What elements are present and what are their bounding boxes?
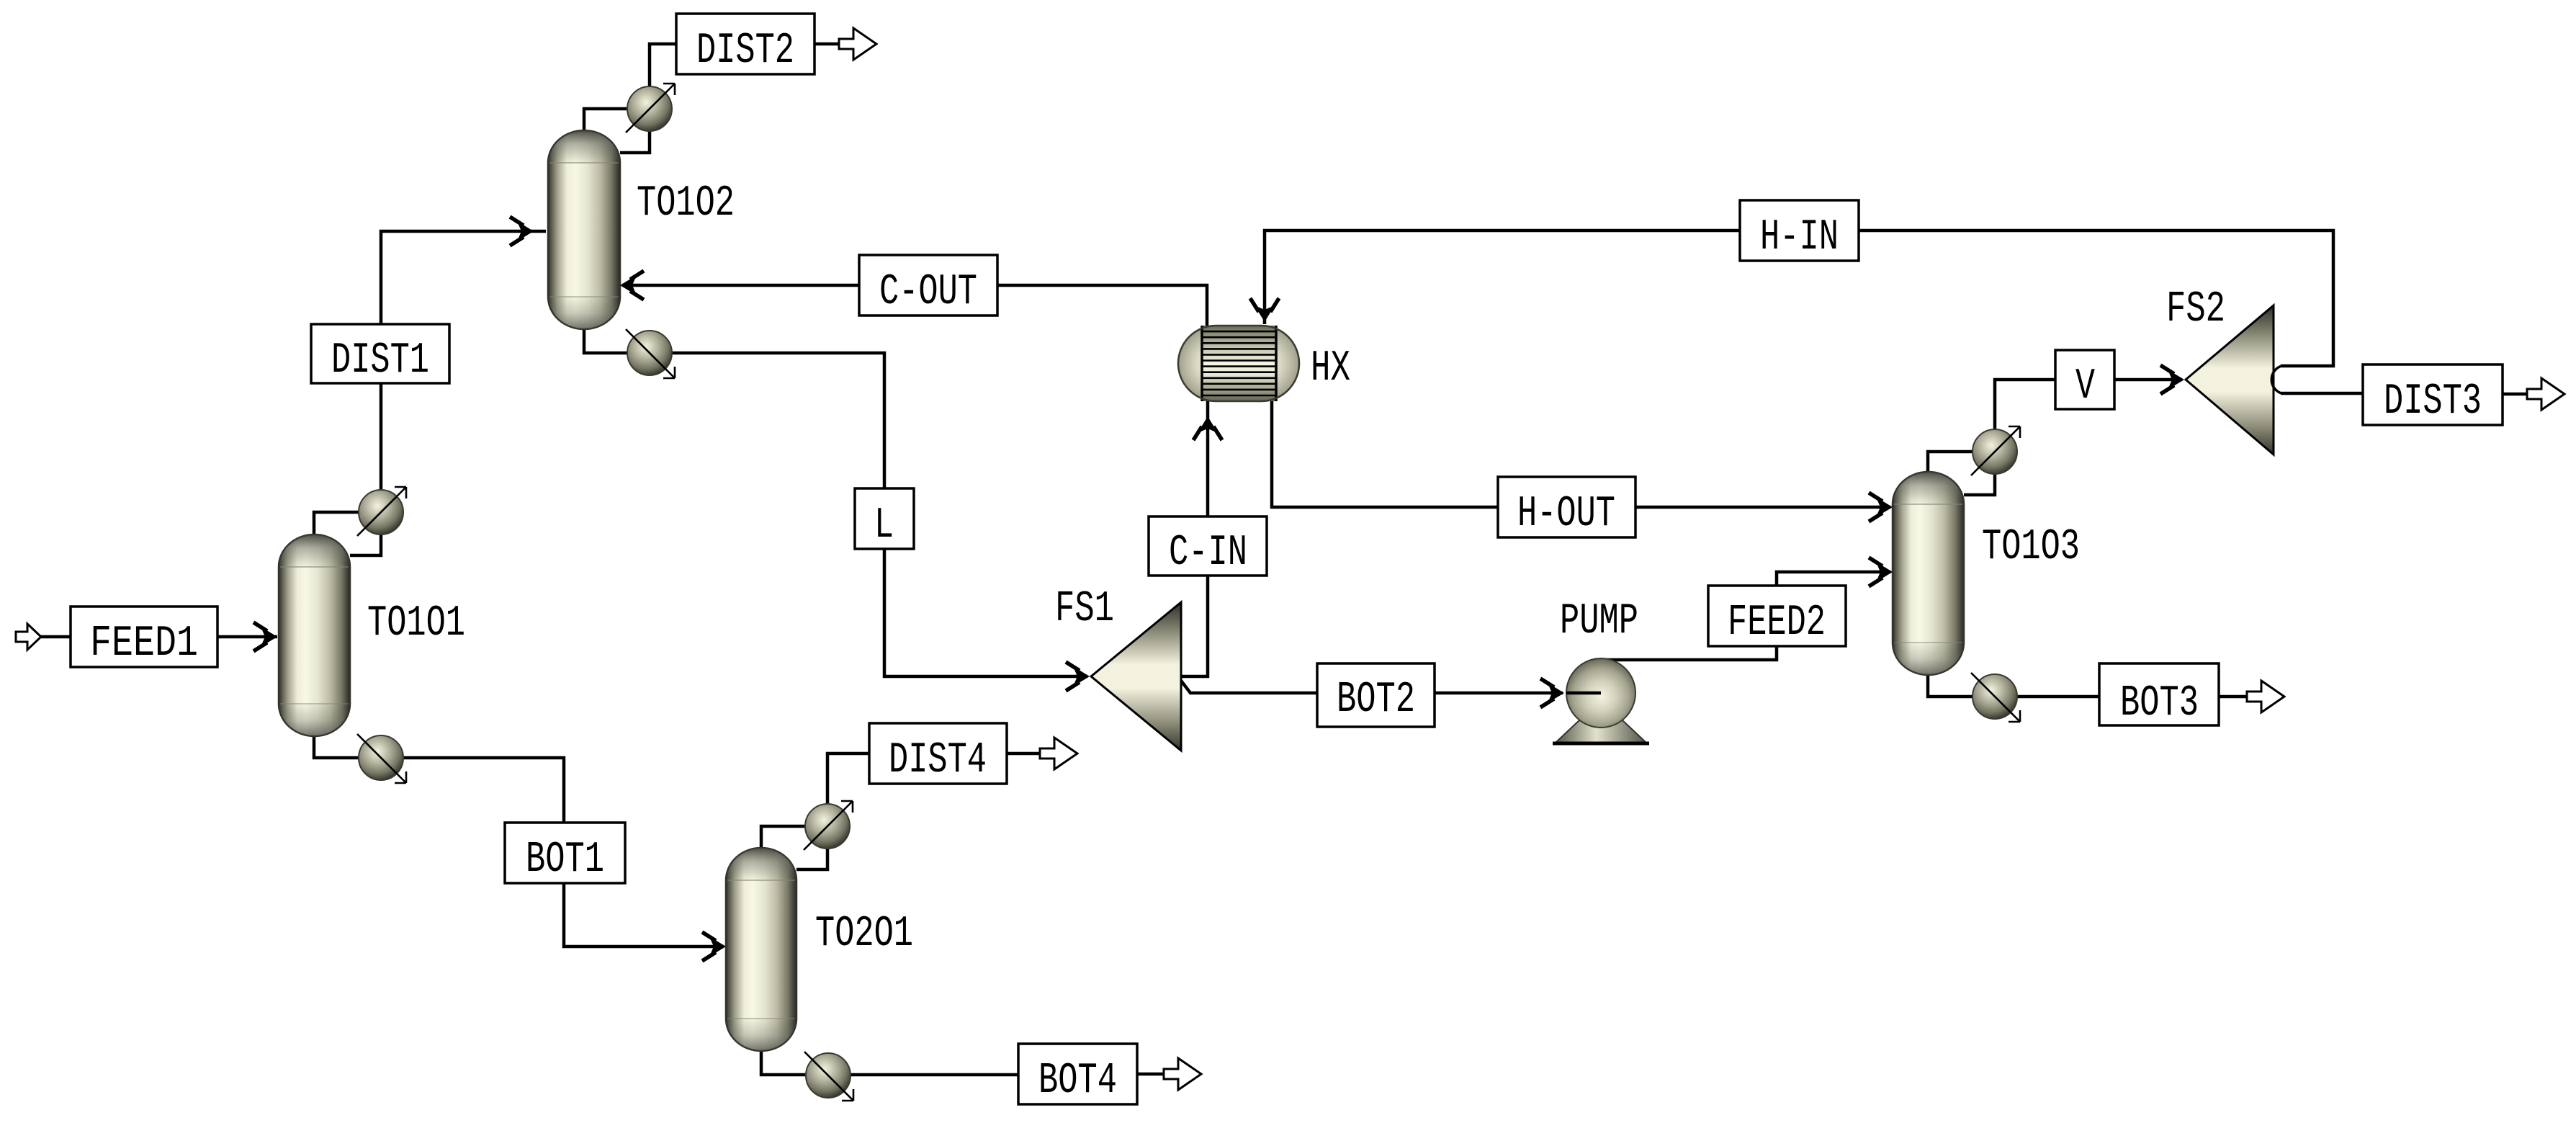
svg-text:BOT3: BOT3: [2120, 679, 2199, 728]
svg-text:BOT1: BOT1: [526, 836, 604, 885]
svg-text:TO1O1: TO1O1: [367, 599, 465, 648]
wire H-OUT from HX to T0103: [1272, 401, 1890, 507]
stream box DIST1: [311, 324, 449, 383]
svg-text:H-OUT: H-OUT: [1517, 490, 1615, 539]
arrow L into FS1: [1066, 662, 1090, 691]
stream box BOT2: [1317, 663, 1435, 727]
svg-text:FS2: FS2: [2166, 285, 2225, 334]
wire T0102 top to condenser: [584, 109, 627, 130]
wire DIST1 riser to T0102: [381, 231, 546, 490]
wire T0103 top to condenser: [1928, 452, 1973, 472]
column T0103: [1893, 472, 1964, 675]
svg-text:HX: HX: [1311, 344, 1350, 393]
arrow BOT2 into PUMP: [1540, 679, 1564, 707]
svg-text:FEED1: FEED1: [90, 619, 198, 668]
wire BOT3 out: [2017, 695, 2247, 699]
svg-text:DIST3: DIST3: [2384, 377, 2482, 426]
wire L path to FS1: [672, 353, 1087, 676]
wire FEED2 from pump riser: [1595, 572, 1890, 660]
wire H-IN from FS2 to HX: [1265, 231, 2333, 366]
svg-text:L: L: [874, 501, 894, 550]
export arrow DIST3: [2527, 378, 2564, 410]
pump PUMP: [1553, 658, 1649, 743]
arrow H-IN into HX: [1250, 298, 1279, 322]
svg-text:BOT4: BOT4: [1038, 1057, 1117, 1106]
stream box DIST2: [676, 14, 814, 74]
wire T0201 condenser return: [796, 849, 827, 869]
export arrow BOT4: [1164, 1058, 1201, 1090]
reboiler circle T0102: [626, 329, 675, 378]
arrow H-OUT into T0103: [1869, 493, 1893, 522]
stream box H-IN: [1740, 200, 1859, 261]
stream box DIST3: [2363, 364, 2503, 425]
svg-text:TO2O1: TO2O1: [815, 910, 913, 959]
svg-text:DIST1: DIST1: [331, 336, 429, 385]
svg-text:FS1: FS1: [1055, 585, 1114, 634]
stream box BOT1: [505, 823, 625, 883]
reboiler circle T0103: [1971, 673, 2020, 722]
reboiler circle T0201: [804, 1052, 853, 1101]
export arrow DIST2: [839, 28, 876, 60]
wire T0102 bottom to reboiler: [584, 329, 627, 353]
column T0101: [279, 534, 350, 736]
flash splitter FS2: [2186, 305, 2274, 455]
arrow V into FS2: [2160, 365, 2184, 394]
wire T0101 condenser return: [350, 534, 381, 555]
stream box L: [855, 488, 914, 549]
wire DIST4 out: [827, 753, 1040, 804]
flash splitter FS1: [1091, 602, 1181, 751]
heat exchanger HX: [1178, 326, 1299, 401]
svg-text:DIST4: DIST4: [889, 736, 987, 785]
svg-text:TO1O3: TO1O3: [1982, 523, 2080, 572]
stream box FEED1: [71, 607, 217, 667]
arrow C-IN into HX: [1193, 416, 1222, 440]
stream box FEED2: [1708, 586, 1846, 646]
wire BOT2 from FS1 to pump: [1181, 681, 1563, 693]
condenser circle T0103: [1971, 426, 2020, 475]
stream box H-OUT: [1498, 477, 1635, 537]
wire T0102 condenser return: [620, 131, 650, 153]
stream box C-OUT: [859, 255, 997, 316]
condenser circle T0101: [357, 487, 406, 536]
wire T0103 condenser return: [1964, 474, 1995, 495]
stream box V: [2055, 350, 2114, 409]
wire BOT1 path to T0201: [403, 758, 724, 947]
wire FEED1 to T0101: [217, 635, 277, 639]
svg-text:TO1O2: TO1O2: [637, 179, 735, 228]
svg-text:C-OUT: C-OUT: [879, 268, 977, 317]
wire T0201 top to condenser: [761, 826, 805, 848]
svg-text:H-IN: H-IN: [1760, 213, 1839, 262]
svg-text:V: V: [2075, 362, 2095, 411]
svg-text:FEED2: FEED2: [1728, 599, 1826, 648]
reboiler circle T0101: [357, 734, 406, 783]
stream box DIST4: [869, 723, 1007, 784]
svg-text:DIST2: DIST2: [696, 27, 794, 76]
export arrow DIST4: [1040, 738, 1077, 769]
wire DIST2 out: [650, 44, 839, 86]
export arrow BOT3: [2247, 681, 2284, 712]
wire T0103 bottom to reboiler: [1928, 675, 1973, 697]
wire FS2 port arc: [2271, 366, 2281, 393]
arrow BOT1 into T0201: [702, 932, 726, 961]
condenser circle T0201: [804, 801, 853, 850]
import arrow FEED1: [16, 624, 41, 650]
wire BOT4 out: [851, 1074, 1164, 1075]
arrow DIST1 into T0102: [510, 217, 534, 246]
wire DIST3 out: [2281, 393, 2527, 394]
wire V path to FS2: [1995, 380, 2182, 429]
arrow FEED2 into T0103: [1869, 558, 1893, 586]
column T0201: [726, 848, 796, 1051]
wire C-IN from FS1 to HX: [1181, 401, 1208, 676]
svg-text:BOT2: BOT2: [1337, 676, 1415, 725]
wire T0101 top to condenser: [314, 512, 359, 534]
wire T0201 bottom to reboiler: [761, 1051, 806, 1075]
arrow C-OUT into T0102: [620, 271, 644, 300]
stream box BOT3: [2099, 663, 2219, 725]
svg-text:C-IN: C-IN: [1169, 529, 1247, 578]
svg-text:PUMP: PUMP: [1560, 597, 1638, 646]
stream box C-IN: [1149, 516, 1267, 576]
arrow FEED1 into T0101: [253, 622, 277, 651]
wire T0101 bottom to reboiler: [314, 736, 359, 758]
condenser circle T0102: [626, 84, 675, 133]
wire C-OUT from HX to T0102: [622, 285, 1207, 326]
stream box BOT4: [1018, 1044, 1137, 1104]
column T0102: [548, 130, 620, 329]
wire FEED1 import to box: [41, 635, 71, 639]
